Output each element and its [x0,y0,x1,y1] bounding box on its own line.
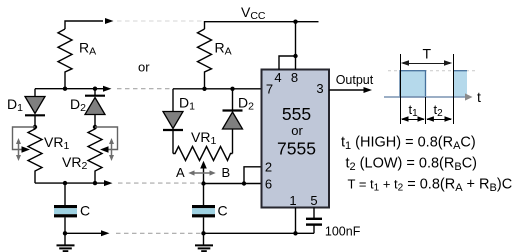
potentiometer VR1 zigzag [28,127,42,183]
potentiometer VR1 (middle) horizontal zigzag [173,147,233,161]
svg-text:VR2: VR2 [62,154,87,172]
wire: branch to pin 2 [244,167,262,184]
potentiometer VR2 zigzag [88,127,102,183]
svg-text:8: 8 [291,70,298,85]
wire: middle diode rail to pin 7 [173,88,262,90]
svg-text:or: or [291,123,303,138]
wire: pin 8 to Vcc [295,22,297,70]
node: Vcc rail junction [293,20,297,24]
op-amp U1: 555 body [262,70,330,208]
node: D2 top junction (left) [93,87,97,91]
svg-text:t2: t2 [434,102,444,119]
t2 dimension arrow [426,116,452,122]
node: pin2 branch junction [242,181,246,185]
wire: left bottom rail arrow [97,182,105,184]
node: VR2 bottom junction [93,181,97,185]
dashed net (top, left) [117,20,204,22]
wire: left diode rail [35,88,96,90]
resistor RA (left) top wire with arrow [65,18,114,29]
svg-text:3: 3 [316,81,323,96]
capacitor C (left) [54,205,77,217]
VR1 wiper arrowhead [22,146,31,153]
VR1 adjust arrow [16,138,21,161]
svg-text:7555: 7555 [277,139,316,159]
svg-text:2: 2 [265,160,272,175]
ground (middle) [195,233,213,251]
svg-text:D1: D1 [179,95,195,113]
wire: wiper to pin 6 [204,183,262,185]
node: RA1 bottom junction [63,87,67,91]
capacitor C (middle) [192,205,215,217]
svg-text:100nF: 100nF [325,225,361,239]
extension line left [400,54,402,124]
wire: pin 4 link [279,56,296,70]
svg-text:t2 (LOW) = 0.8(RBC): t2 (LOW) = 0.8(RBC) [346,156,478,174]
VR2 wiper bracket [95,127,118,150]
diode D2 (middle) [223,89,243,154]
wire: left bottom rail [35,182,97,184]
T dimension arrow [401,60,452,66]
VR1 wiper bracket [13,127,36,150]
wire: wiper junction to cap C (middle) [203,184,205,206]
node: D2 top junction (middle) [230,87,234,91]
wire: left diode rail arrow [96,88,104,90]
wire: to cap C (left) [64,183,66,205]
wire: cap C to ground (left) [64,217,66,233]
svg-text:VCC: VCC [241,4,266,22]
A-B adjust arrow [188,170,215,175]
svg-text:Output: Output [336,73,374,87]
capacitor 100nF [306,219,322,234]
node: wiper junction [201,181,205,185]
svg-text:555: 555 [282,104,311,124]
dashed net (diode rail, left) [117,88,170,90]
wire: Vcc rail [205,22,319,29]
svg-text:RA: RA [79,40,96,58]
dashed net (ground rail, left) [116,232,201,234]
extension line middle [425,97,427,124]
svg-text:5: 5 [310,193,317,208]
resistor RA (left) zigzag [58,29,72,89]
wire: left ground rail arrow [65,232,102,234]
svg-text:A: A [176,165,185,180]
svg-text:C: C [80,203,90,219]
svg-text:B: B [222,165,231,180]
svg-text:t1 (HIGH) = 0.8(RAC): t1 (HIGH) = 0.8(RAC) [341,135,476,153]
time axis [384,96,465,98]
svg-text:D2: D2 [238,95,254,113]
pulse 1 [400,71,426,97]
wire: output pin 3 arrow [329,89,364,91]
VR1 wiper arrow (middle) [200,161,207,184]
diode D2 (left) [85,89,105,127]
node: ground rail junction (middle) [201,231,205,235]
svg-text:D2: D2 [70,96,86,114]
dashed high level line [388,70,477,72]
diode D1 (left) [25,89,45,127]
node: ground junction (left) [63,231,67,235]
svg-text:t: t [477,89,481,105]
VR2 adjust arrow [109,138,114,161]
dashed net (bottom rail, left) [118,182,201,184]
svg-text:1: 1 [289,193,296,208]
node: RA2 bottom junction [202,87,206,91]
resistor RA (middle) zigzag [198,29,212,89]
svg-text:VR1: VR1 [44,134,69,152]
node: VR2 top junction [93,125,97,129]
ground (left) [57,233,75,251]
svg-text:or: or [138,60,150,75]
VR2 wiper arrowhead [100,146,109,153]
wire: pin 1 to ground rail [295,208,297,234]
svg-text:D1: D1 [7,96,23,114]
svg-text:RA: RA [215,40,232,58]
svg-text:VR1: VR1 [191,129,216,147]
node: cap C top junction (left) [63,181,67,185]
svg-text:t1: t1 [409,102,419,119]
extension line right [453,54,455,124]
svg-text:6: 6 [265,177,272,192]
node: VR1 top junction [33,125,37,129]
svg-text:7: 7 [266,82,273,97]
svg-text:C: C [218,203,228,219]
wire: ground rail [204,232,315,234]
node: pin 1 ground junction [293,231,297,235]
t1 dimension arrow [401,116,425,122]
diode D1 (middle) [163,89,183,154]
svg-text:T = t1 + t2 = 0.8(RA + RB)C: T = t1 + t2 = 0.8(RA + RB)C [348,177,513,195]
wire: pin 5 to cap [313,208,315,219]
wire: cap C to ground rail (middle) [203,217,205,233]
time axis arrowhead [465,93,473,100]
svg-text:T: T [423,46,432,62]
pulse 2 [454,71,468,97]
node: pin4/8 junction [293,54,297,58]
svg-text:4: 4 [274,70,281,85]
